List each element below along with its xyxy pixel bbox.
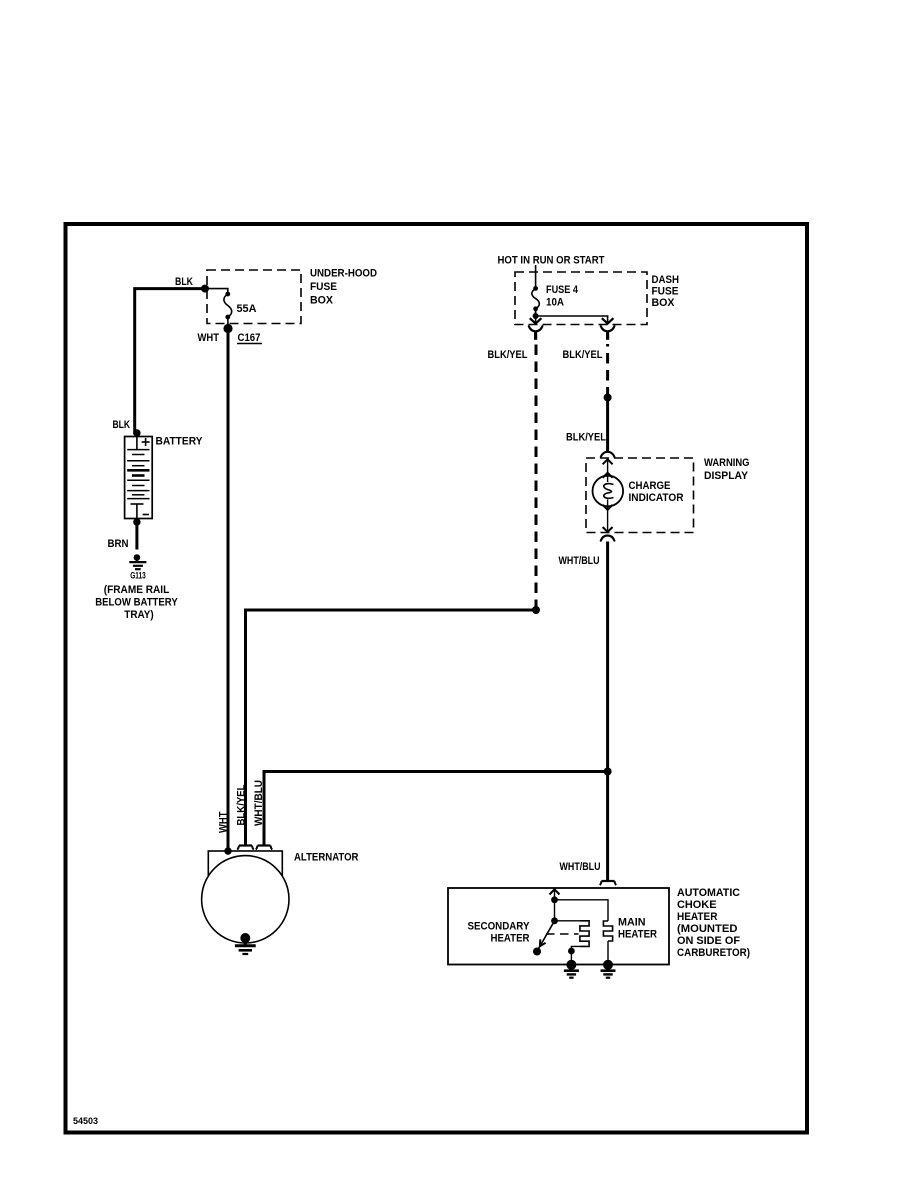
wire main heater to ground <box>607 941 609 963</box>
terminal WHT/BLU at alternator <box>256 846 273 850</box>
node splice at y610 <box>532 606 540 614</box>
svg-text:INDICATOR: INDICATOR <box>629 492 684 504</box>
terminal BLK/YEL at alternator <box>237 846 254 850</box>
svg-text:BLK/YEL: BLK/YEL <box>566 432 606 444</box>
svg-text:BLK/YEL: BLK/YEL <box>563 349 603 361</box>
wire BLK battery-to-fusebox vertical <box>135 289 205 434</box>
wire to secondary element <box>555 920 581 922</box>
svg-text:BLK/YEL: BLK/YEL <box>488 349 528 361</box>
svg-text:(FRAME RAIL: (FRAME RAIL <box>104 584 170 596</box>
node secondary element bottom <box>568 948 575 955</box>
svg-text:G113: G113 <box>130 571 146 581</box>
wire WHT/BLU horizontal to alternator <box>264 772 608 846</box>
wire BLK/YEL dashed right branch <box>606 344 609 398</box>
wire BLK/YEL dashed left branch <box>535 344 538 610</box>
wire fuse output branch <box>536 309 608 322</box>
svg-text:HEATER: HEATER <box>677 911 718 923</box>
connector (female, left branch) <box>529 326 543 340</box>
label UNDER-HOOD FUSE BOX <box>310 268 377 307</box>
connector (below warning display) <box>601 536 615 541</box>
svg-text:ON SIDE OF: ON SIDE OF <box>677 935 740 947</box>
wire fusebox internal lead <box>205 289 228 292</box>
svg-text:WHT/BLU: WHT/BLU <box>560 861 601 873</box>
border frame <box>66 224 808 1133</box>
svg-text:BOX: BOX <box>310 295 334 307</box>
connector (female, right branch) <box>601 326 615 340</box>
svg-text:AUTOMATIC: AUTOMATIC <box>677 887 740 899</box>
svg-text:55A: 55A <box>237 303 257 315</box>
arrow choke heater feed <box>550 889 560 900</box>
label FUSE 4 10A <box>546 284 579 309</box>
wire hot feed stub <box>535 265 537 288</box>
label (FRAME RAIL BELOW BATTERY TRAY) <box>95 584 178 621</box>
terminal WHT/BLU at choke heater <box>600 881 617 885</box>
svg-text:WHT: WHT <box>218 811 230 833</box>
ground G113 <box>129 554 146 569</box>
svg-text:BLK: BLK <box>113 419 131 431</box>
svg-text:BLK: BLK <box>175 276 193 288</box>
label SECONDARY HEATER <box>468 921 531 945</box>
svg-text:WHT/BLU: WHT/BLU <box>253 780 265 826</box>
label MAIN HEATER <box>618 917 657 941</box>
alternator <box>202 851 289 943</box>
fuse F4 10A <box>532 286 540 311</box>
node battery negative terminal <box>133 518 140 525</box>
svg-text:ALTERNATOR: ALTERNATOR <box>294 852 359 864</box>
svg-text:BATTERY: BATTERY <box>156 436 204 448</box>
svg-text:BRN: BRN <box>108 538 129 550</box>
battery <box>125 437 153 519</box>
svg-text:TRAY): TRAY) <box>124 609 154 621</box>
svg-text:FUSE: FUSE <box>310 281 337 293</box>
arrow fuse box exit left <box>530 318 542 323</box>
node fuse output junction <box>533 313 539 319</box>
svg-text:HEATER: HEATER <box>491 933 530 945</box>
ground (alternator) <box>235 933 256 954</box>
svg-text:FUSE 4: FUSE 4 <box>546 284 579 296</box>
svg-text:WHT: WHT <box>198 332 220 344</box>
node secondary junction <box>551 917 558 924</box>
arrow fuse box exit right <box>602 318 614 323</box>
svg-text:WARNING: WARNING <box>704 457 750 469</box>
node WHT at alternator <box>224 847 231 854</box>
svg-text:DASH: DASH <box>652 274 680 286</box>
arrow out of lamp (box edge) <box>603 500 613 533</box>
wire WHT/BLU warning display to choke heater <box>606 542 609 881</box>
svg-text:UNDER-HOOD: UNDER-HOOD <box>310 268 377 280</box>
label AUTOMATIC CHOKE HEATER (MOUNTED ON SIDE OF CARBURETOR) <box>677 887 750 959</box>
svg-text:CHARGE: CHARGE <box>629 480 671 492</box>
svg-text:BELOW BATTERY: BELOW BATTERY <box>95 596 178 608</box>
warning display box <box>586 458 694 533</box>
svg-text:WHT/BLU: WHT/BLU <box>559 555 600 567</box>
node splice at y771 <box>604 768 612 776</box>
svg-text:BLK/YEL: BLK/YEL <box>236 784 248 825</box>
dash fuse box <box>515 272 647 325</box>
switch contact <box>533 948 541 956</box>
node splice BLK/YEL <box>604 394 612 402</box>
fusible link 55A <box>224 292 232 320</box>
automatic choke heater box <box>448 888 669 965</box>
svg-text:C167: C167 <box>238 332 261 344</box>
wire BLK/YEL horizontal to alternator <box>246 610 537 845</box>
node battery positive terminal <box>133 429 140 436</box>
wire to main heater <box>555 900 609 921</box>
svg-text:CARBURETOR): CARBURETOR) <box>677 947 750 959</box>
label DASH FUSE BOX <box>652 274 680 309</box>
under-hood fuse box <box>207 270 301 324</box>
wire BRN <box>135 522 138 550</box>
ground (main heater) <box>601 960 616 978</box>
svg-text:HOT IN RUN OR START: HOT IN RUN OR START <box>498 255 605 267</box>
wire fuse to connector <box>227 317 229 328</box>
svg-text:(MOUNTED: (MOUNTED <box>677 923 738 935</box>
svg-text:DISPLAY: DISPLAY <box>704 470 749 482</box>
svg-text:54503: 54503 <box>73 1116 98 1126</box>
svg-text:BOX: BOX <box>652 297 676 309</box>
svg-text:FUSE: FUSE <box>652 286 679 298</box>
main heater element <box>603 921 612 941</box>
label WARNING DISPLAY <box>704 457 750 482</box>
wire secondary branch <box>554 900 556 921</box>
svg-text:CHOKE: CHOKE <box>677 899 717 911</box>
lamp charge indicator <box>593 476 624 507</box>
connector C167 <box>223 324 232 333</box>
svg-text:10A: 10A <box>546 297 564 309</box>
label C167 underlined <box>237 332 262 344</box>
switch blade (secondary heater) <box>538 921 555 951</box>
wire secondary element to ground <box>571 946 580 963</box>
svg-text:MAIN: MAIN <box>618 917 646 929</box>
svg-text:SECONDARY: SECONDARY <box>468 921 531 933</box>
node junction at under-hood fuse box <box>201 285 209 293</box>
connector (to warning display) <box>601 452 615 457</box>
label CHARGE INDICATOR <box>629 480 684 504</box>
arrow into lamp (box edge) <box>603 459 613 482</box>
linkage (dashed) <box>546 933 579 935</box>
ground (secondary heater) <box>564 960 579 978</box>
node choke heater top junction <box>551 896 558 903</box>
secondary heater element <box>580 921 589 947</box>
svg-text:HEATER: HEATER <box>618 929 657 941</box>
wire BLK/YEL to warning display <box>606 398 609 452</box>
wire WHT C167-to-alternator <box>227 330 230 851</box>
